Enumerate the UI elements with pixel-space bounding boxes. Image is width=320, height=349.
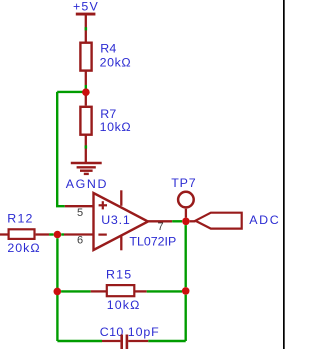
resistor R4 [80, 41, 131, 70]
test point TP7 [171, 176, 196, 218]
svg-text:R12: R12 [7, 211, 33, 225]
svg-text:+5V: +5V [73, 0, 99, 14]
wire (R15 to node E) [134, 290, 147, 292]
wire (pin 7 to node C) [172, 220, 182, 222]
ground AGND [66, 163, 108, 191]
wire (left rail down to pin 5 corner) [57, 92, 65, 206]
resistor R7 [80, 107, 131, 135]
svg-text:R4: R4 [100, 41, 116, 55]
svg-text:C10: C10 [100, 325, 124, 339]
svg-text:20kΩ: 20kΩ [100, 55, 132, 69]
op-amp U3.1 [94, 190, 177, 250]
node D (left feedback junction) [54, 288, 62, 296]
wire (bottom row left segment) [57, 340, 102, 342]
svg-text:ADC: ADC [249, 213, 280, 227]
minus marking [98, 234, 106, 236]
wire (node down to R7) [85, 96, 87, 106]
svg-text:10kΩ: 10kΩ [107, 298, 141, 312]
wire (R7 to ground) [85, 135, 87, 163]
node E (right feedback junction) [182, 287, 190, 295]
svg-text:7: 7 [158, 221, 164, 233]
wire (node C down feedback right rail) [184, 225, 186, 287]
plus marking [99, 204, 107, 206]
wire (node to left rail) [57, 91, 86, 93]
wire (right rail down to bottom row) [184, 295, 186, 341]
pin 7 [148, 220, 172, 222]
wire (R12 to node B) [36, 233, 50, 235]
power stub top [120, 190, 122, 206]
wire (R4 bottom to node) [85, 72, 87, 86]
svg-text:U3.1: U3.1 [101, 213, 130, 227]
node C (output junction) [182, 218, 190, 226]
wire (bottom row right segment) [148, 340, 186, 342]
svg-text:AGND: AGND [66, 177, 108, 191]
svg-text:TP7: TP7 [171, 176, 196, 190]
svg-text:R7: R7 [100, 107, 116, 121]
svg-text:5: 5 [77, 207, 83, 219]
wire (tiny green at +5V pin join) [85, 27, 88, 30]
svg-text:10pF: 10pF [128, 325, 160, 339]
node B (inverting input junction) [54, 231, 62, 239]
svg-text:6: 6 [77, 235, 83, 247]
sheet border line (right) [283, 0, 285, 349]
wire (node B down to feedback loop) [56, 238, 58, 341]
resistor R15 [106, 267, 140, 312]
svg-text:10kΩ: 10kΩ [100, 120, 132, 134]
pin 5 [65, 205, 94, 207]
port ADC [195, 213, 280, 229]
svg-text:20kΩ: 20kΩ [7, 241, 40, 255]
resistor R12 [0, 211, 41, 254]
wire (node B to pin 6) [61, 233, 64, 235]
wire (node C to port) [190, 220, 196, 222]
svg-text:R15: R15 [106, 267, 132, 281]
capacitor C10 [100, 325, 160, 349]
wire (node D to R15) [61, 290, 91, 292]
power stub bottom [120, 235, 122, 250]
power port +5V [73, 0, 99, 41]
pin 6 [64, 233, 94, 235]
node A (divider midpoint junction) [82, 88, 90, 96]
svg-text:TL072IP: TL072IP [129, 234, 176, 248]
